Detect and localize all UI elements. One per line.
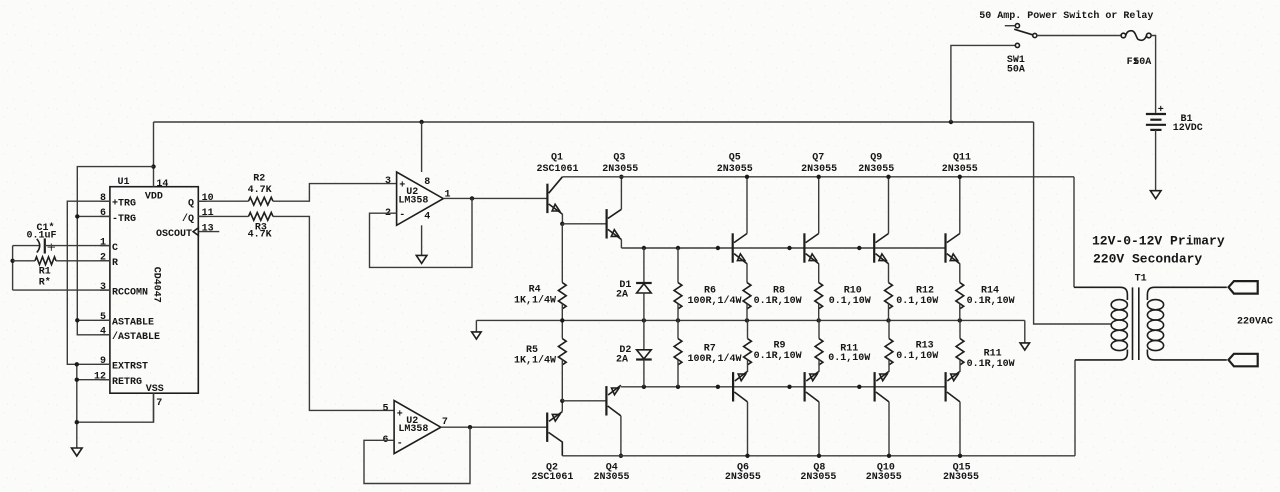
svg-text:9: 9 [100,356,106,367]
svg-text:-: - [397,439,403,450]
junction mid bus x818.7 [817,318,821,322]
svg-text:4: 4 [100,327,106,338]
transistor Q1 [547,177,562,224]
U2A feedback wire [370,198,473,267]
label T1 [1135,274,1147,285]
svg-text:2N3055: 2N3055 [593,472,629,483]
svg-text:RETRG: RETRG [112,377,142,388]
wire bottom base bus [621,386,946,388]
svg-text:R5: R5 [526,345,538,356]
wire timing junction vertical [12,246,14,291]
U1 pin 10 Q [188,193,214,210]
resistor R14 [956,283,964,321]
ground stub left [475,320,477,332]
wire C1 to U1 pin 1 [45,245,110,247]
fuse F1 50A [1121,31,1151,41]
junction top bus D1 [642,246,646,250]
U1 pin 6 -TRG [100,208,136,225]
svg-text:+TRG: +TRG [112,199,136,210]
junction Q9 collector / rail [886,175,890,179]
wire C1 left [13,245,40,247]
resistor R8 [743,283,751,321]
switch SW1 contact A [1015,24,1019,28]
label Q8 2N3055 [800,463,836,484]
junction EXTRST [75,362,79,366]
label Q7 2N3055 [801,152,837,175]
svg-text:2N3055: 2N3055 [858,164,894,175]
label R4 1K,1/4W [514,284,556,306]
label R6 100R,1/4W [688,286,742,308]
svg-text:14: 14 [156,179,168,190]
junction bottom bus n6 [857,385,861,389]
junction U2A output [470,196,474,200]
svg-text:2N3055: 2N3055 [602,164,638,175]
U1 pin 13 OSCOUT [156,223,219,240]
switch SW1 lever arm [1014,29,1032,35]
wire U2B output to Q2 base [441,426,547,428]
label CD4047 [151,267,162,303]
junction bottom bus R7 [676,385,680,389]
junction mid bus x959.8 [958,318,962,322]
transistor Q3 [607,177,622,248]
svg-text:2N3055: 2N3055 [866,472,902,483]
svg-text:2N3055: 2N3055 [943,472,979,483]
svg-text:1: 1 [100,237,106,248]
ground (mid bus left) [472,332,482,339]
svg-text:R10: R10 [844,285,862,296]
IC U1 box [110,187,198,394]
label 220VAC [1237,317,1273,328]
svg-text:12: 12 [94,371,106,382]
label Q15 2N3055 [943,463,979,484]
junction +12V rail / switch branch [949,120,953,124]
svg-text:3: 3 [385,176,391,187]
wire top base bus [621,247,945,249]
svg-text:220V Secondary: 220V Secondary [1093,252,1202,267]
junction Q8 collector / rail [817,454,821,458]
resistor R2 [249,197,274,205]
diode D1 [636,248,652,320]
svg-text:2SC1061: 2SC1061 [536,164,578,175]
svg-text:Q11: Q11 [953,152,971,163]
svg-text:RCCOMN: RCCOMN [112,288,148,299]
svg-text:0.1uF: 0.1uF [27,230,57,241]
wire +12V rail (battery feed across top) [154,121,1034,123]
wire +TRG to EXTRST [67,201,110,364]
op-amp U2A [385,172,451,225]
svg-text:2SC1061: 2SC1061 [531,472,573,483]
resistor R7 [674,320,682,386]
transistor Q10 [875,360,889,456]
junction mid bus x678 [676,318,680,322]
junction Q7 collector / rail [817,175,821,179]
label R8 0.1R,10W [754,285,802,307]
junction Q3 collector / rail [619,175,623,179]
label Q1 2SC1061 [536,152,578,175]
wire mid ground bus [476,319,1024,321]
junction mid bus x747 [745,318,749,322]
wire Q2 emitter junction to Q4 base [562,400,606,402]
svg-text:R14: R14 [981,285,999,296]
wire R2 to op-amp U2A + input [273,184,397,202]
junction U2B output [468,425,472,429]
label Q2 2SC1061 [531,463,573,484]
wire Q1 emitter junction to Q3 base [562,223,606,225]
junction Q1 emitter / R4 / Q3 base [560,222,564,226]
svg-text:EXTRST: EXTRST [112,362,148,373]
transistor Q5 [733,177,747,283]
U1 pin 2 R [100,253,118,270]
svg-text:-: - [399,210,405,221]
U1 pin 9 EXTRST [100,356,148,373]
junction mid bus x562.3 [560,318,564,322]
label 50 Amp. Power Switch or Relay [979,10,1153,22]
label R11 0.1R,10W [967,349,1015,370]
label D2 2A [616,345,631,366]
label Q3 2N3055 [602,152,638,175]
transformer T1 secondary winding [1147,287,1226,360]
svg-text:0.1,10W: 0.1,10W [896,351,938,362]
ground stub right [1024,320,1026,343]
svg-text:2N3055: 2N3055 [725,472,761,483]
svg-text:LM358: LM358 [398,424,428,435]
svg-text:2: 2 [100,253,106,264]
svg-text:VDD: VDD [145,191,163,202]
junction Q4 collector / rail [619,454,623,458]
svg-text:Q5: Q5 [729,152,741,163]
svg-text:R12: R12 [916,285,934,296]
junction top bus n1 [716,246,720,250]
transistor Q15 [946,360,960,456]
label R13 0.1,10W [896,340,938,362]
wire top collector rail [562,176,1074,178]
U2A pin 4 ground wire [421,225,423,255]
svg-text:2N3055: 2N3055 [801,164,837,175]
svg-text:2N3055: 2N3055 [942,164,978,175]
junction Q6 collector / rail [745,454,749,458]
junction bottom bus n5 [787,385,791,389]
svg-text:0.1R,10W: 0.1R,10W [754,351,802,362]
resistor R12 [885,283,893,321]
label R11 0.1,10W [828,344,870,364]
switch SW1 common contact [1033,33,1037,37]
junction Q10 collector / rail [887,454,891,458]
wire bottom collector rail [562,455,1075,457]
transformer T1 core [1133,287,1139,360]
svg-text:100R,1/4W: 100R,1/4W [688,295,742,307]
U1 pin 14 VDD stub [154,122,169,190]
svg-text:Q: Q [188,199,194,210]
label Q5 2N3055 [717,152,753,175]
svg-text:Q7: Q7 [812,152,824,163]
wire fuse to battery [1151,36,1156,113]
label R1 R* [39,266,51,288]
label R12 0.1,10W [896,285,938,307]
ground (battery) [1150,191,1161,199]
wire +12V rail to transformer center tap [1034,122,1112,324]
label C1* 0.1uF [27,222,57,241]
svg-text:100R,1/4W: 100R,1/4W [688,353,742,365]
resistor R11 (bottom) [956,320,964,364]
junction VSS [75,420,79,424]
wire U1 Q to R2 [198,200,248,202]
svg-text:/Q: /Q [182,213,194,225]
svg-text:3: 3 [100,282,106,293]
wire battery to ground [1155,130,1157,191]
svg-text:R8: R8 [773,285,785,296]
svg-text:0.1R,10W: 0.1R,10W [967,296,1015,307]
label Q4 2N3055 [593,463,629,484]
svg-text:50 Amp. Power Switch or Relay: 50 Amp. Power Switch or Relay [979,10,1153,22]
svg-text:Q1: Q1 [551,152,563,163]
junction mid bus x643.9 [642,318,646,322]
svg-text:50A: 50A [1133,57,1151,68]
svg-text:6: 6 [100,208,106,219]
svg-text:1K,1/4W: 1K,1/4W [514,295,556,307]
svg-text:0.1,10W: 0.1,10W [896,296,938,307]
label R9 0.1R,10W [754,340,802,362]
U1 pin 11 /Q [182,208,214,225]
switch SW1 contact B [1015,43,1019,47]
transistor Q7 [804,177,818,283]
U1 pin 5 ASTABLE [100,312,154,329]
svg-text:+: + [1158,105,1164,116]
label 220V Secondary [1093,252,1202,267]
battery B1 plates [1146,105,1166,130]
label VDD [145,191,163,202]
label Q6 2N3055 [725,463,761,484]
label R10 0.1,10W [829,285,871,307]
wire U1 /Q to R3 [198,215,248,217]
junction Q5 collector / rail [745,175,749,179]
svg-text:13: 13 [202,223,214,234]
svg-text:T1: T1 [1135,274,1147,285]
svg-text:4: 4 [424,212,430,223]
svg-text:R9: R9 [773,340,785,351]
svg-text:4.7K: 4.7K [248,229,272,240]
svg-text:0.1,10W: 0.1,10W [828,353,870,364]
wire switch branch [951,45,1016,122]
resistor R6 [674,248,682,320]
svg-text:2N3055: 2N3055 [800,472,836,483]
wire bottom rail to transformer primary bottom [1074,360,1076,456]
transistor Q11 [946,177,960,283]
svg-text:VSS: VSS [146,384,164,395]
svg-text:OSCOUT: OSCOUT [156,229,192,240]
label Q11 2N3055 [942,152,978,175]
svg-text:220VAC: 220VAC [1237,317,1273,328]
capacitor C1 [37,238,56,256]
label SW1 [1007,55,1025,75]
junction top bus n3 [857,246,861,250]
svg-text:R13: R13 [916,340,934,351]
svg-text:C: C [112,243,118,254]
U1 pin 4 /ASTABLE [100,327,160,344]
svg-text:1K,1/4W: 1K,1/4W [514,355,556,367]
svg-text:50A: 50A [1007,65,1025,76]
svg-text:Q9: Q9 [870,152,882,163]
connector secondary bottom [1229,354,1258,367]
U1 pin 3 RCCOMN [100,282,148,299]
junction top bus R6 [676,246,680,250]
svg-text:0.1R,10W: 0.1R,10W [754,296,802,307]
label 12V-0-12V Primary [1092,234,1225,249]
label B1 12VDC [1173,114,1203,134]
svg-text:R4: R4 [529,284,541,295]
junction Q11 collector / rail [958,175,962,179]
svg-text:7: 7 [442,417,448,428]
svg-text:Q3: Q3 [613,152,625,163]
svg-text:R1: R1 [39,266,51,277]
svg-text:/ASTABLE: /ASTABLE [112,331,160,343]
U2A V+ wire (pin 8) [421,122,423,172]
op-amp U2B [382,401,447,454]
connector secondary top [1229,281,1258,294]
resistor R10 [815,283,823,321]
ground wire (EXTRST/RETRG/VSS) [77,364,154,448]
resistor R1 [13,257,110,265]
label R5 1K,1/4W [514,345,556,367]
svg-text:LM358: LM358 [398,195,428,206]
svg-text:10: 10 [202,193,214,204]
junction Q2 emitter / R5 / Q4 base [560,399,564,403]
wire RCCOMN [13,289,110,291]
junction -TRG [75,214,79,218]
junction Q15 collector / rail [958,454,962,458]
svg-text:11: 11 [202,208,214,219]
svg-text:5: 5 [382,403,388,414]
svg-text:12V-0-12V Primary: 12V-0-12V Primary [1092,234,1225,249]
svg-text:0.1,10W: 0.1,10W [829,296,871,307]
svg-text:2N3055: 2N3055 [717,164,753,175]
label Q10 2N3055 [866,463,902,484]
svg-text:2A: 2A [616,290,628,301]
svg-text:8: 8 [424,177,430,188]
label F1 50A [1127,57,1152,68]
svg-text:U1: U1 [118,177,130,188]
U2B feedback wire [364,427,470,483]
resistor R5 [558,320,566,400]
junction top bus n2 [787,246,791,250]
svg-text:ASTABLE: ASTABLE [112,318,154,329]
svg-text:R*: R* [39,277,51,289]
wire U2A output to Q1 base [443,197,547,199]
junction +12V rail / op-amp V+ [419,120,423,124]
svg-text:+: + [397,409,403,420]
transistor Q4 [606,385,621,456]
svg-text:R7: R7 [704,344,716,355]
transformer T1 primary winding [1074,287,1127,360]
svg-text:+: + [399,181,405,192]
svg-text:2A: 2A [616,355,628,366]
wire top rail to transformer primary top [1073,177,1075,287]
svg-text:-TRG: -TRG [112,214,136,225]
svg-text:CD4047: CD4047 [151,267,162,303]
junction ASTABLE [75,318,79,322]
junction R1 left [10,259,14,263]
resistor R11 (bottom) [815,320,823,364]
ground (mid bus right) [1020,343,1030,350]
wire SW1 to fuse [1037,35,1121,37]
U1 pin 8 +TRG [100,193,136,210]
junction bottom bus n4 [716,385,720,389]
svg-text:4.7K: 4.7K [248,185,272,196]
svg-text:12VDC: 12VDC [1173,123,1203,134]
label U1 [118,177,130,188]
label Q9 2N3055 [858,152,894,175]
label R14 0.1R,10W [967,285,1015,307]
resistor R4 [558,224,566,321]
wire SW1 contact A stub [1005,25,1016,27]
label D1 2A [616,280,631,301]
transistor Q2 [547,401,562,456]
resistor R3 [249,213,274,221]
ground (U2A) [416,255,427,263]
wire R3 to op-amp U2B + input [273,216,394,410]
transistor Q8 [805,360,819,456]
ground (U1) [72,448,83,456]
U1 pin 7 VSS stub [154,393,163,422]
svg-text:R2: R2 [253,173,265,184]
svg-text:5: 5 [100,312,106,323]
label R7 100R,1/4W [688,344,742,366]
label VSS [146,384,164,395]
svg-text:R: R [112,258,118,269]
svg-text:+: + [47,239,56,256]
junction mid bus x888.5 [886,318,890,322]
U1 pin 12 RETRG [94,371,142,388]
svg-text:8: 8 [100,193,106,204]
diode D2 [636,320,652,386]
label R3 4.7K [248,222,272,240]
junction VDD stub / -TRG branch [151,164,155,168]
junction bottom bus D2 [642,385,646,389]
svg-text:7: 7 [156,398,162,409]
svg-text:R6: R6 [704,286,716,297]
transistor Q9 [874,177,888,283]
svg-text:0.1R,10W: 0.1R,10W [967,359,1015,370]
wire VDD to -TRG/ASTABLE//ASTABLE [77,167,153,335]
resistor R13 (bottom) [885,320,893,364]
resistor R9 (bottom) [744,320,752,364]
junction RETRG [75,378,79,382]
U1 pin 1 C [100,237,118,254]
transistor Q6 [733,360,747,456]
label R2 4.7K [248,173,272,196]
